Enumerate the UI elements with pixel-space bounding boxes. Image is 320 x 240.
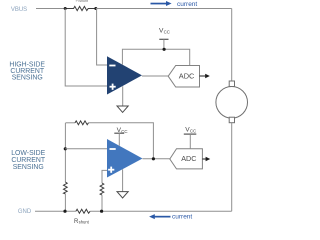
junction node left of shunt (64, 7, 67, 10)
ADC U2 output arrow (200, 75, 206, 77)
wire U1 Vcc stub (122, 49, 189, 65)
svg-text:shunt: shunt (79, 0, 88, 3)
resistor Rshunt (low-side) (76, 209, 90, 213)
power Vcc symbol (high-side) (159, 38, 168, 40)
wire motor down to ground rail (231, 123, 233, 212)
junction node bottom right of shunt (100, 210, 103, 213)
svg-text:SENSING: SENSING (13, 164, 44, 171)
wire shunt to bottom-right corner (90, 210, 232, 212)
junction node right of shunt (94, 7, 97, 10)
junction node inverting input (low-side) (64, 147, 67, 150)
svg-text:ADC: ADC (181, 154, 196, 163)
wire left sense vertical (low-side) (64, 123, 66, 182)
svg-text:SENSING: SENSING (12, 75, 43, 82)
resistor R feedback (low-side) (75, 121, 89, 125)
resistor Rshunt (high-side) (65, 6, 96, 10)
wire R1 to ground rail (64, 194, 66, 211)
pin + of U3 (108, 167, 114, 173)
wire feedback to output node (89, 123, 154, 159)
svg-text:GND: GND (18, 209, 32, 215)
wire right sense line down to - input (97, 9, 107, 66)
power Vcc symbol (low-side op-amp) (114, 132, 124, 134)
motor M (load) body (216, 87, 248, 119)
wire shunt to top-right corner (96, 8, 232, 10)
wire - input (low-side) (65, 148, 107, 150)
resistor R2 (low-side right) (100, 183, 104, 195)
svg-text:LOW-SIDE: LOW-SIDE (11, 150, 45, 157)
wire VBUS to shunt (36, 8, 65, 10)
wire left sense line down to + input (65, 9, 107, 87)
ADC U2 (high-side) (168, 66, 199, 88)
wire + input (low-side) (102, 170, 107, 183)
op-amp U1 (high-side, dark blue) (107, 56, 142, 94)
wire U1 output to ADC (142, 75, 168, 77)
power Vcc symbol (low-side ADC) (184, 133, 197, 135)
junction node bottom left (63, 210, 66, 213)
svg-text:shunt: shunt (79, 220, 90, 225)
wire GND to shunt (bottom) (35, 210, 76, 212)
pin - of U3 (110, 148, 116, 150)
pin - of U1 (109, 65, 115, 67)
current arrow (top) (151, 1, 172, 6)
motor M (load) terminal top (229, 81, 234, 87)
motor M (load) terminal bottom (229, 117, 234, 123)
svg-text:current: current (177, 1, 197, 8)
wire U3 output to ADC (143, 158, 170, 160)
wire top-right corner down to motor (231, 9, 233, 82)
svg-text:CURRENT: CURRENT (11, 157, 45, 164)
ground (low-side op-amp) (122, 169, 124, 191)
svg-text:CC: CC (121, 129, 127, 134)
junction node Vcc rail (163, 48, 166, 51)
op-amp U3 (low-side, medium blue) (107, 139, 143, 178)
wire low-side feedback top (66, 122, 75, 124)
wire R2 to ground rail (101, 195, 103, 211)
svg-text:CC: CC (190, 129, 196, 134)
junction node output/feedback (low-side) (152, 157, 155, 160)
pin + of U1 (110, 84, 116, 90)
current arrow (bottom, pointing left) (149, 214, 170, 219)
resistor R1 (low-side left) (64, 182, 68, 194)
ground (high-side op-amp) (122, 86, 124, 106)
svg-text:CC: CC (164, 30, 170, 35)
svg-text:current: current (172, 213, 192, 220)
ADC U4 output arrow (202, 158, 206, 160)
svg-text:VBUS: VBUS (11, 7, 27, 13)
ADC U4 (low-side) (170, 149, 203, 169)
svg-text:ADC: ADC (179, 72, 195, 81)
